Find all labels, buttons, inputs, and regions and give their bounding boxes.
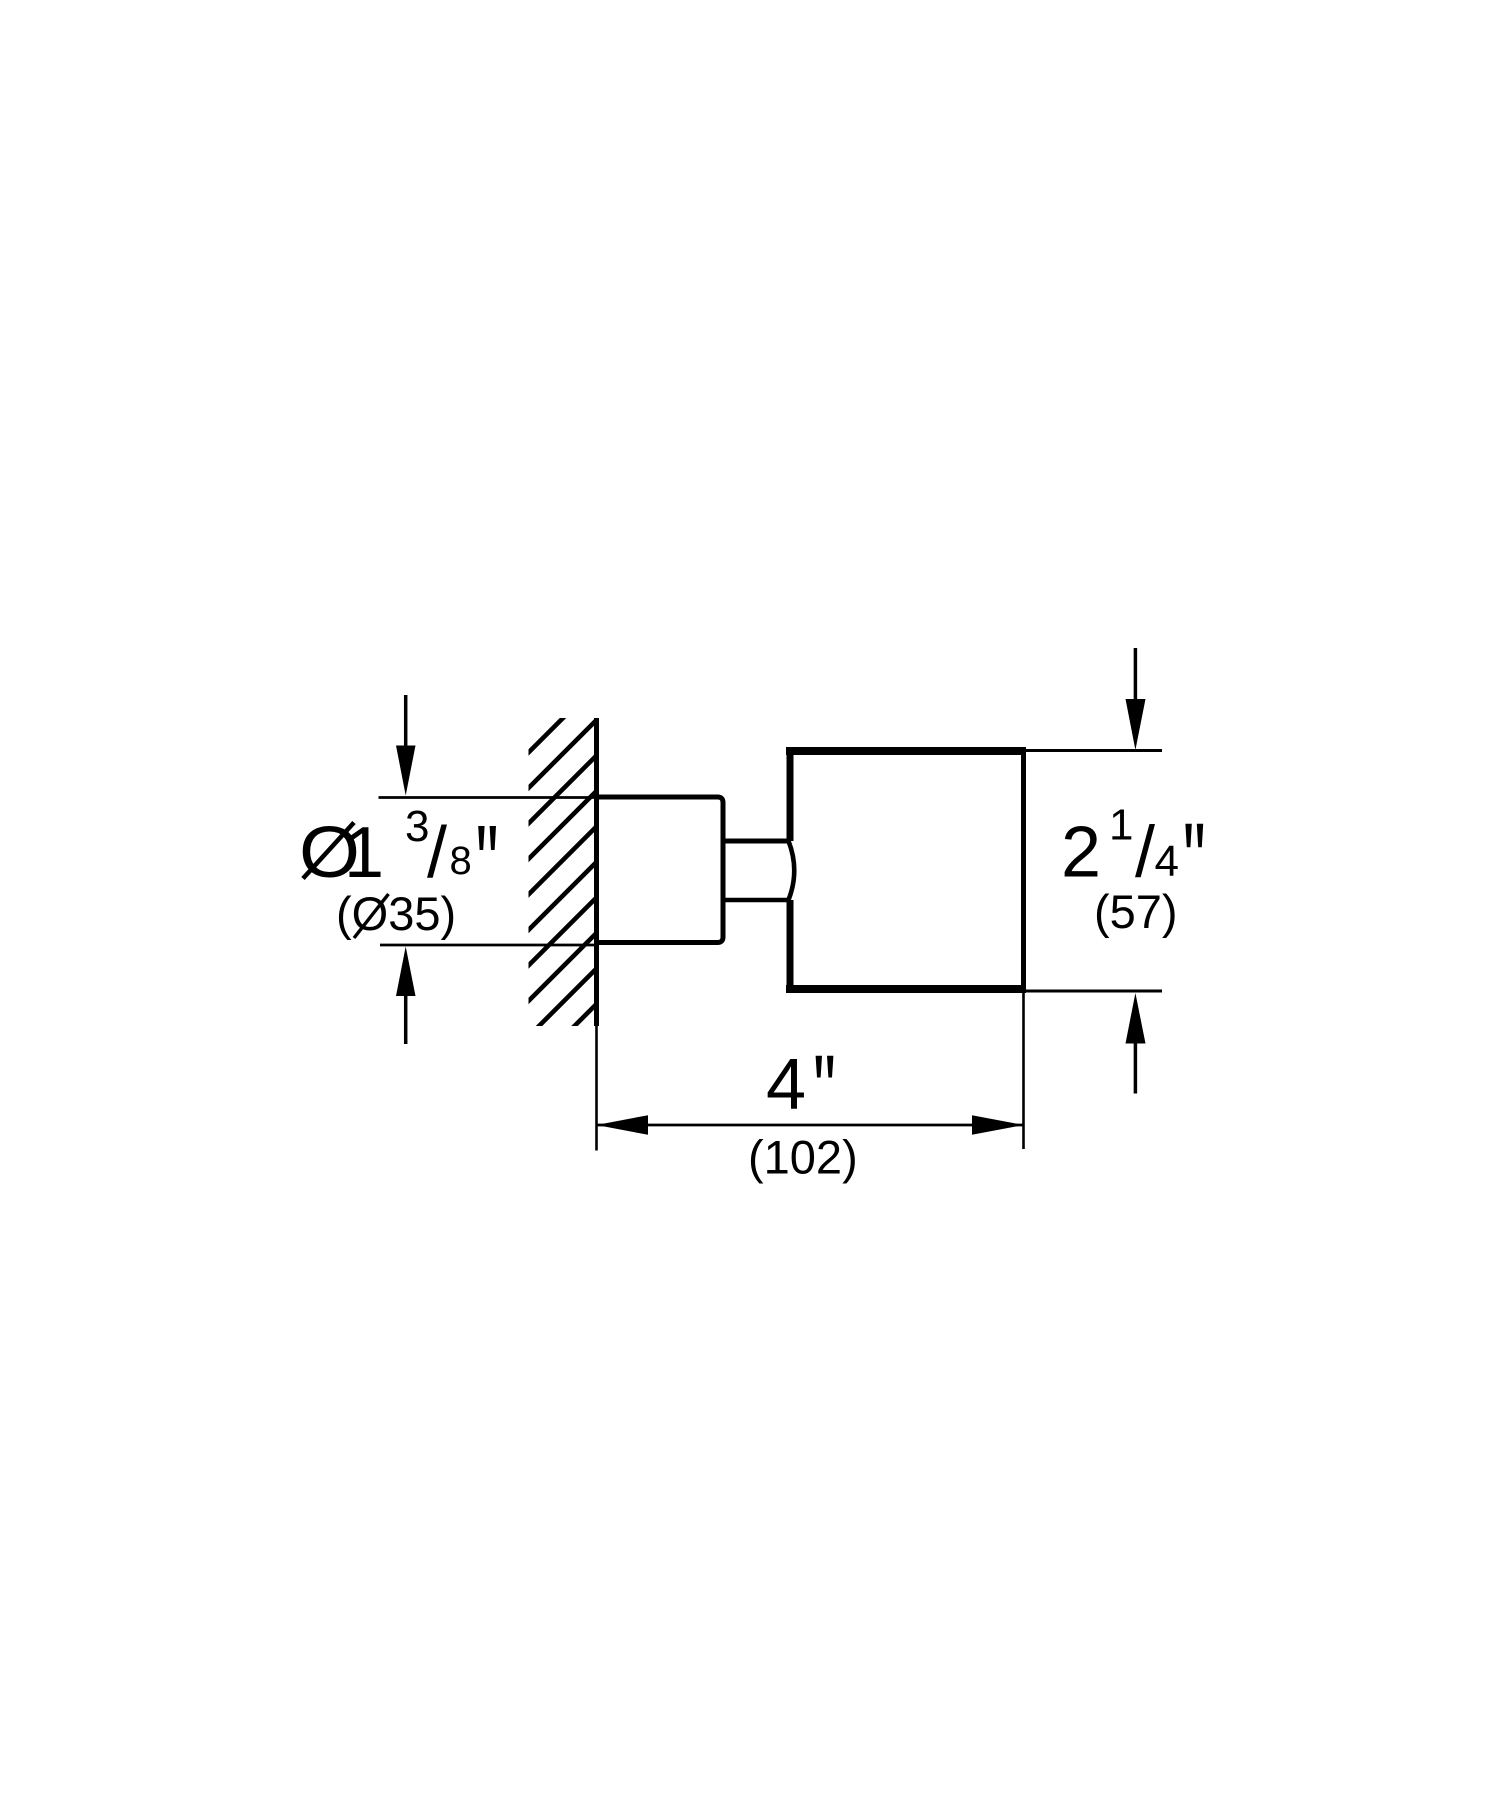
height dim top arrowhead [1126, 699, 1146, 750]
svg-text:(O35): (O35) [336, 887, 456, 940]
holder cup top edge [786, 747, 1026, 755]
holder cup right edge [1021, 747, 1026, 993]
diameter dim top arrowhead [396, 746, 416, 796]
svg-text:(102): (102) [748, 1131, 858, 1184]
depth dim left extension line (wall continuation) [595, 1026, 598, 1151]
height dim bottom arrowhead [1126, 993, 1146, 1044]
height dim bottom extension line [1026, 990, 1162, 993]
depth dim right arrowhead [972, 1115, 1024, 1135]
svg-text:/: / [427, 813, 447, 893]
height dim bottom arrow shaft [1134, 1044, 1138, 1094]
diameter dim top arrow shaft [404, 695, 408, 747]
svg-text:3: 3 [405, 802, 429, 851]
wall line [594, 718, 599, 1026]
svg-text:/: / [1135, 813, 1155, 893]
svg-text:8: 8 [450, 839, 472, 883]
escutcheon (wall mount) [597, 797, 724, 943]
holder cup bottom edge [786, 985, 1026, 993]
neck bottom line [723, 898, 788, 903]
svg-text:4: 4 [766, 1045, 806, 1125]
wall hatching [524, 680, 601, 1077]
depth dim line [597, 1124, 1024, 1127]
svg-text:1: 1 [344, 813, 384, 893]
height dim top arrow shaft [1134, 648, 1138, 700]
diameter dim top extension line [379, 796, 597, 799]
depth dim left arrowhead [597, 1115, 649, 1135]
depth dim right extension line (cup edge continuation) [1022, 993, 1025, 1149]
neck top line [723, 839, 788, 844]
ball joint arc [789, 841, 795, 900]
diameter dim bottom arrow shaft [404, 996, 408, 1044]
svg-text:2: 2 [1061, 813, 1101, 893]
diameter dim bottom arrowhead [396, 947, 416, 997]
svg-text:(57): (57) [1094, 885, 1178, 938]
holder cup left edge upper segment [787, 747, 794, 841]
svg-text:4: 4 [1155, 837, 1179, 886]
holder cup left edge lower segment [787, 900, 794, 993]
svg-text:1: 1 [1109, 801, 1133, 850]
diameter dim bottom extension line [380, 944, 597, 947]
height dim top extension line [1026, 749, 1162, 752]
